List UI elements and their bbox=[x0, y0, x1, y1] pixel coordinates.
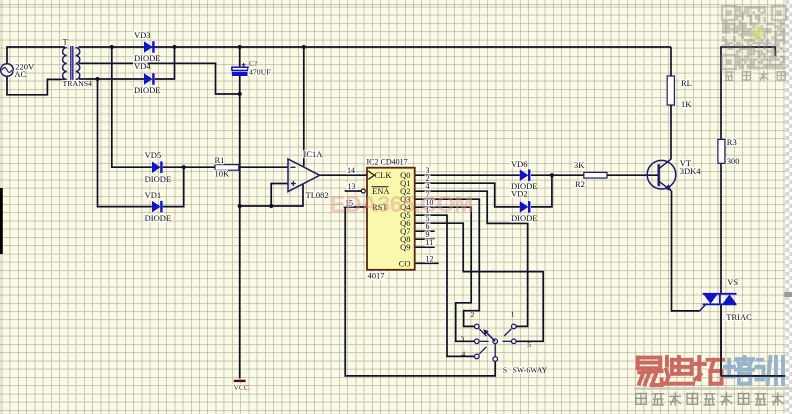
svg-text:CLK: CLK bbox=[375, 170, 393, 180]
svg-text:VD1: VD1 bbox=[145, 190, 162, 200]
svg-text:TRIAC: TRIAC bbox=[726, 312, 752, 322]
svg-text:VD4: VD4 bbox=[134, 61, 151, 71]
svg-text:5: 5 bbox=[527, 340, 531, 349]
svg-text:R3: R3 bbox=[727, 137, 737, 147]
svg-text:VS: VS bbox=[727, 277, 738, 287]
svg-text:IC1A: IC1A bbox=[304, 149, 324, 159]
svg-text:VD5: VD5 bbox=[145, 150, 162, 160]
svg-text:VD2: VD2 bbox=[511, 189, 528, 199]
svg-text:EDA365.COM: EDA365.COM bbox=[330, 191, 473, 217]
svg-text:12: 12 bbox=[426, 254, 434, 263]
svg-text:RL: RL bbox=[681, 78, 692, 88]
svg-text:SW-6WAY: SW-6WAY bbox=[513, 365, 548, 374]
svg-text:13: 13 bbox=[348, 182, 356, 191]
svg-text:1K: 1K bbox=[681, 99, 692, 109]
svg-text:11: 11 bbox=[426, 238, 434, 247]
svg-text:3DK4: 3DK4 bbox=[680, 166, 702, 176]
svg-text:1: 1 bbox=[511, 309, 515, 318]
svg-text:VCC: VCC bbox=[234, 383, 249, 392]
svg-text:4: 4 bbox=[462, 350, 466, 359]
svg-text:Q9: Q9 bbox=[400, 242, 410, 252]
svg-text:DIODE: DIODE bbox=[511, 213, 537, 223]
svg-text:S: S bbox=[503, 365, 507, 374]
svg-text:IC2 CD4017: IC2 CD4017 bbox=[367, 158, 408, 167]
svg-text:DIODE: DIODE bbox=[145, 213, 171, 223]
svg-text:T: T bbox=[63, 37, 69, 47]
svg-text:DIODE: DIODE bbox=[134, 85, 160, 95]
svg-text:3K: 3K bbox=[574, 160, 585, 170]
svg-text:VD3: VD3 bbox=[134, 30, 151, 40]
svg-text:2: 2 bbox=[471, 310, 475, 319]
svg-text:R1: R1 bbox=[215, 155, 225, 165]
svg-text:VD6: VD6 bbox=[511, 159, 528, 169]
svg-text:CO: CO bbox=[399, 258, 411, 268]
svg-text:3: 3 bbox=[461, 334, 465, 343]
svg-text:TRANS4: TRANS4 bbox=[63, 79, 93, 88]
svg-text:470UF: 470UF bbox=[249, 67, 271, 76]
svg-text:DIODE: DIODE bbox=[145, 174, 171, 184]
svg-text:14: 14 bbox=[347, 166, 355, 175]
svg-text:10K: 10K bbox=[215, 168, 231, 178]
svg-text:R2: R2 bbox=[575, 179, 585, 189]
svg-text:TL082: TL082 bbox=[306, 190, 329, 200]
svg-text:300: 300 bbox=[727, 156, 740, 166]
svg-text:AC: AC bbox=[14, 69, 26, 79]
svg-text:4017: 4017 bbox=[368, 271, 385, 281]
